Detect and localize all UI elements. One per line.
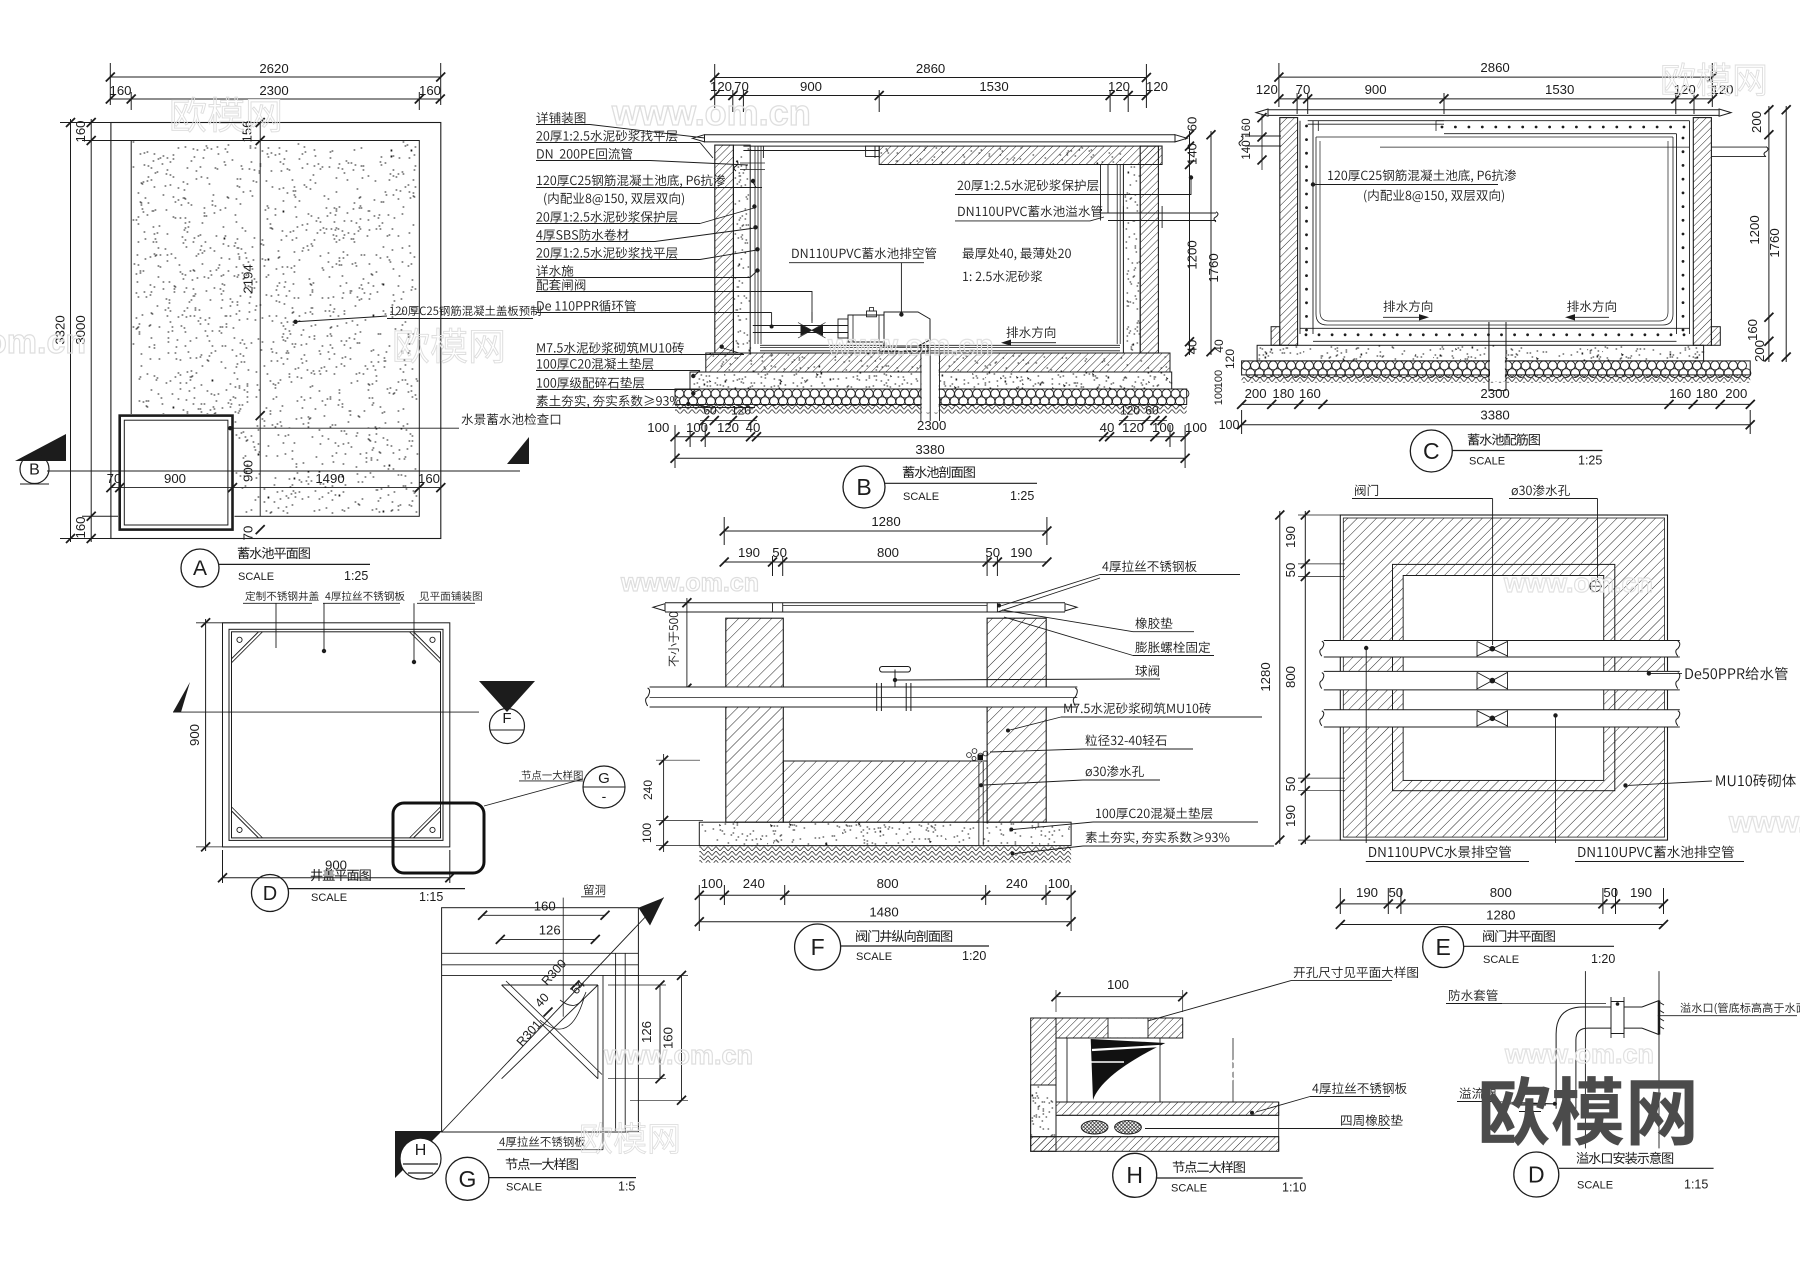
dim row 160/2300/160	[110, 98, 440, 100]
svg-text:www.om.cn: www.om.cn	[603, 1040, 753, 1070]
steel plate label G	[499, 1136, 585, 1147]
centre drain pipe	[1488, 322, 1490, 390]
gravel bed	[1242, 361, 1751, 375]
dim 3380	[675, 457, 1185, 459]
label water supply pipe	[1647, 671, 1651, 675]
dim 2620 top	[110, 76, 440, 78]
inner liner lines with rounded corners	[1316, 136, 1673, 138]
bottom dim row 100/240/800/240/100	[699, 894, 1071, 896]
title D bubble	[252, 875, 289, 912]
svg-text:180: 180	[1696, 386, 1718, 401]
cavity outline	[1066, 1038, 1068, 1102]
svg-text:140: 140	[1241, 140, 1253, 159]
bottom slab hatched	[1056, 1102, 1279, 1115]
title H bubble	[1113, 1153, 1157, 1197]
svg-text:2194: 2194	[241, 264, 256, 293]
svg-text:900: 900	[164, 471, 186, 486]
waterproof sleeve	[1611, 1002, 1624, 1034]
manhole cover plate	[743, 145, 879, 147]
svg-text:160: 160	[1299, 386, 1321, 401]
dim 156 at centre line	[256, 118, 265, 127]
svg-text:SCALE: SCALE	[903, 491, 939, 503]
svg-text:1760: 1760	[1206, 253, 1221, 282]
label waterproof sleeve	[1449, 989, 1498, 1001]
svg-text:200: 200	[1749, 111, 1764, 133]
long diagonal to cut flag	[442, 898, 664, 1132]
bottom interior dim line 70/900/1490/160	[111, 487, 441, 489]
bottom dim rows E	[1340, 903, 1663, 905]
counter diagonal	[502, 985, 598, 1079]
right wall liner lines	[1116, 165, 1118, 345]
left wall hatched	[715, 145, 734, 353]
dim 2860 top	[715, 77, 1147, 79]
concrete pad stippled	[1257, 345, 1704, 361]
svg-text:2300: 2300	[259, 83, 288, 98]
svg-text:1:25: 1:25	[1578, 454, 1602, 468]
svg-text:B: B	[856, 474, 871, 500]
svg-text:om.cn: om.cn	[0, 323, 86, 361]
svg-text:SCALE: SCALE	[1171, 1183, 1207, 1195]
svg-text:120: 120	[1223, 349, 1237, 369]
svg-text:C: C	[1423, 438, 1440, 464]
drain direction labels	[1384, 300, 1433, 312]
centre drain pipe redraw over layers	[1490, 347, 1505, 382]
material labels left of section B	[537, 112, 586, 124]
svg-text:SCALE: SCALE	[506, 1182, 542, 1194]
pool wall verticals	[1584, 971, 1586, 1148]
svg-text:900: 900	[1365, 82, 1387, 97]
svg-text:126: 126	[539, 923, 561, 938]
svg-text:100: 100	[1213, 370, 1225, 388]
pipe 2	[1324, 671, 1680, 690]
svg-text:70: 70	[1296, 82, 1311, 97]
svg-text:1530: 1530	[979, 79, 1008, 94]
cover slab hatched with lip	[879, 146, 1162, 164]
left dim rows E	[1304, 511, 1306, 844]
svg-text:SCALE: SCALE	[238, 571, 274, 583]
svg-text:www.om.cn: www.om.cn	[620, 569, 759, 597]
label reservoir drain	[1553, 713, 1557, 717]
svg-text:160: 160	[1745, 319, 1760, 341]
svg-text:1:15: 1:15	[1684, 1178, 1708, 1192]
cover plate over opening	[1308, 120, 1444, 122]
tank bottom liner	[760, 344, 1120, 346]
svg-text:190: 190	[1356, 885, 1378, 900]
bottom slab hatched	[706, 353, 1170, 372]
svg-text:190: 190	[738, 545, 760, 560]
right break line	[1278, 1102, 1280, 1151]
pool paving stipple texture	[133, 142, 418, 514]
svg-text:50: 50	[985, 545, 1000, 560]
svg-text:1:10: 1:10	[1282, 1181, 1306, 1195]
svg-text:60: 60	[703, 404, 717, 418]
dim 126 top	[500, 938, 595, 940]
svg-text:1:20: 1:20	[962, 949, 986, 963]
svg-text:100: 100	[647, 420, 669, 435]
wall waterproof liner lines	[754, 146, 756, 344]
svg-text:H: H	[415, 1142, 427, 1159]
overflow elbow pipe	[1556, 1007, 1642, 1109]
svg-text:-: -	[602, 788, 607, 804]
dim 100	[1056, 996, 1183, 998]
ground paving line	[705, 134, 1176, 136]
svg-text:1530: 1530	[1545, 82, 1574, 97]
svg-text:1:25: 1:25	[1010, 489, 1034, 503]
svg-text:120: 120	[1146, 79, 1168, 94]
right dim line outer 1760	[1210, 131, 1212, 355]
svg-text:100: 100	[701, 876, 723, 891]
drain pipe through right pier base	[978, 762, 980, 846]
cover inner squares	[229, 629, 443, 840]
dim 3380	[1242, 424, 1751, 426]
section marker H	[395, 1131, 442, 1178]
overflow pipe at right wall	[1100, 165, 1102, 214]
bottom slab rebar band	[1300, 327, 1690, 329]
liner walls with rebar dots	[1299, 121, 1301, 334]
title F bubble	[795, 924, 841, 970]
svg-text:E: E	[1436, 934, 1451, 960]
svg-text:60: 60	[1145, 404, 1159, 418]
right dims 126/160	[659, 985, 661, 1079]
svg-text:190: 190	[1283, 805, 1298, 827]
svg-text:120: 120	[1120, 404, 1140, 418]
dim 900 vertical centre	[256, 525, 265, 534]
leader to detail G bubble	[484, 779, 583, 806]
svg-text:70: 70	[241, 526, 256, 541]
right edge band lines	[602, 975, 604, 1132]
svg-text:2300: 2300	[917, 418, 946, 433]
drain direction arrow	[1007, 326, 1056, 338]
svg-text:200: 200	[1245, 386, 1267, 401]
right dim line outer 1760	[1785, 106, 1787, 362]
title G bubble	[446, 1157, 489, 1200]
svg-text:160: 160	[419, 83, 441, 98]
svg-text:140: 140	[1185, 143, 1200, 165]
bottom small dims 120/60 right	[1119, 420, 1167, 422]
svg-text:240: 240	[743, 876, 765, 891]
section marker F	[479, 681, 535, 712]
left dim line 3320	[70, 119, 72, 542]
corner gusset plates	[232, 632, 259, 659]
right wall hatched	[1140, 146, 1158, 353]
svg-text:100: 100	[1185, 420, 1207, 435]
svg-text:G: G	[458, 1166, 476, 1192]
title B bubble	[843, 466, 885, 508]
paving line	[1268, 109, 1719, 111]
ground hatch band	[1242, 375, 1751, 383]
svg-text:190: 190	[1630, 885, 1652, 900]
svg-text:1280: 1280	[871, 514, 900, 529]
svg-text:50: 50	[1283, 777, 1298, 792]
svg-text:2300: 2300	[1480, 386, 1509, 401]
valve 2	[1477, 672, 1508, 689]
svg-text:1280: 1280	[1258, 662, 1273, 691]
ground hatch band	[675, 405, 1187, 414]
svg-text:www.om.cn: www.om.cn	[1503, 568, 1653, 598]
left wall hatched	[1280, 118, 1298, 346]
fill below cavity hatched	[783, 761, 987, 822]
outer square double border	[1340, 515, 1667, 840]
top slab hatched with opening	[1056, 1018, 1183, 1038]
svg-text:SCALE: SCALE	[1469, 456, 1505, 468]
svg-text:60: 60	[1185, 117, 1200, 132]
site logo watermark dark	[1482, 1076, 1694, 1146]
right footing step	[1711, 327, 1720, 346]
svg-text:160: 160	[534, 899, 556, 914]
pump drain pipe down	[922, 354, 939, 413]
right-side labels of F	[1102, 560, 1196, 572]
dim 160 top	[483, 914, 605, 916]
svg-text:SCALE: SCALE	[311, 892, 347, 904]
rebar slab label	[1328, 169, 1516, 182]
pipe 1	[1324, 641, 1680, 658]
min-500 dim	[686, 598, 688, 692]
svg-text:B: B	[29, 462, 40, 479]
svg-text:A: A	[193, 557, 207, 580]
title D2 bubble	[1514, 1152, 1559, 1197]
svg-text:190: 190	[1283, 526, 1298, 548]
svg-text:120: 120	[1122, 420, 1144, 435]
svg-text:200: 200	[1752, 340, 1767, 362]
svg-text:www.om.cn: www.om.cn	[611, 92, 811, 133]
labels inside section B	[958, 179, 1099, 191]
svg-text:800: 800	[877, 876, 899, 891]
svg-text:100: 100	[1107, 977, 1129, 992]
right dim line inner	[1768, 106, 1770, 362]
svg-text:180: 180	[1272, 386, 1294, 401]
left dim 900	[205, 619, 207, 851]
title A bubble	[181, 549, 219, 587]
pipe stub right	[1711, 146, 1766, 148]
section cut line B-B	[47, 470, 520, 472]
right dim line inner 60/140/1200/40	[1189, 131, 1191, 355]
svg-text:120: 120	[1256, 82, 1278, 97]
hole leader line vertical	[562, 898, 564, 1017]
svg-text:800: 800	[1283, 666, 1298, 688]
svg-text:www.om.cn: www.om.cn	[1504, 1039, 1654, 1069]
svg-text:800: 800	[1490, 885, 1512, 900]
dim 1480	[699, 921, 1071, 923]
svg-text:1760: 1760	[1767, 228, 1782, 257]
svg-text:70: 70	[107, 471, 122, 486]
svg-text:1200: 1200	[1747, 215, 1762, 244]
svg-text:2620: 2620	[259, 61, 288, 76]
corner gusset triangle	[502, 984, 598, 986]
bottom dim 900	[223, 877, 450, 879]
svg-text:3380: 3380	[1480, 408, 1509, 423]
svg-text:F: F	[502, 710, 511, 727]
svg-text:50: 50	[772, 545, 787, 560]
bottom small dims 60/120 left	[700, 420, 757, 422]
water level marks	[1514, 1104, 1546, 1106]
cover outer square	[223, 623, 450, 847]
svg-text:1200: 1200	[1185, 240, 1200, 269]
pump motor	[838, 319, 848, 338]
svg-text:240: 240	[1006, 876, 1028, 891]
svg-text:1490: 1490	[315, 471, 344, 486]
concrete pad stippled	[690, 372, 1172, 389]
right wall hatched	[1693, 118, 1711, 346]
label waterscape drain	[1364, 646, 1368, 650]
svg-text:100: 100	[1048, 876, 1070, 891]
label overflow weir	[1460, 1087, 1497, 1099]
svg-text:40: 40	[746, 420, 761, 435]
svg-text:3380: 3380	[915, 442, 944, 457]
hatched masonry ring	[1343, 518, 1664, 837]
svg-text:2860: 2860	[1480, 60, 1509, 75]
left dim line 160/3000/160	[90, 119, 92, 542]
cavity wall squares	[1393, 564, 1615, 790]
pipe stub left	[1245, 135, 1281, 137]
svg-text:SCALE: SCALE	[1577, 1180, 1613, 1192]
svg-text:240: 240	[641, 780, 655, 800]
svg-text:SCALE: SCALE	[856, 951, 892, 963]
circulation pipe and valve	[753, 325, 848, 327]
ground hatch F	[699, 846, 1071, 863]
svg-text:40: 40	[1185, 340, 1200, 355]
pipe through valve well	[650, 687, 1078, 707]
labels H	[1312, 1082, 1406, 1094]
left pier hatched	[726, 618, 784, 822]
svg-text:200: 200	[1725, 386, 1747, 401]
valve 3	[1477, 711, 1508, 726]
cover plate lines	[783, 605, 987, 607]
svg-text:160: 160	[418, 471, 440, 486]
bottom base hatched	[1031, 1137, 1279, 1152]
svg-text:F: F	[811, 934, 825, 960]
centre split line	[259, 123, 261, 517]
valve 1	[1477, 642, 1508, 657]
section cut line F-F	[173, 711, 479, 713]
svg-text:160: 160	[73, 516, 88, 538]
pipe 3	[1324, 710, 1680, 727]
left small dims 240/100	[663, 754, 665, 852]
svg-text:120: 120	[717, 420, 739, 435]
svg-text:160: 160	[73, 120, 88, 142]
svg-text:100: 100	[640, 823, 654, 843]
right pier hatched	[987, 618, 1046, 822]
section marker B	[15, 434, 66, 461]
label brick masonry	[1623, 783, 1627, 787]
pipe couplings	[876, 683, 878, 711]
pad stippled F	[699, 822, 1071, 845]
dim 2860 top	[1279, 76, 1712, 78]
label leaders into section	[590, 125, 705, 139]
title E bubble	[1423, 927, 1464, 968]
svg-text:D: D	[1528, 1162, 1545, 1188]
svg-text:100: 100	[1152, 420, 1174, 435]
valve T-handle	[880, 667, 911, 673]
percolation hole symbol	[1590, 581, 1601, 592]
inspection hatch square 900x900	[118, 414, 235, 531]
light watermarks	[172, 97, 280, 132]
svg-text:50: 50	[1283, 563, 1298, 578]
svg-text:www.o: www.o	[1728, 806, 1800, 839]
labels above cover	[245, 591, 318, 601]
dim row 190/50/800/50/190	[724, 561, 1047, 563]
svg-text:H: H	[1126, 1162, 1143, 1188]
svg-text:900: 900	[187, 724, 202, 746]
dim 1280 top	[724, 530, 1047, 532]
dim row 120/70/900/1530/120/120	[715, 95, 1147, 97]
svg-text:1480: 1480	[869, 905, 898, 920]
label overflow mouth	[1680, 1003, 1800, 1015]
dim row 120/70/900/1530/120/120	[1279, 98, 1712, 100]
black wedge weir	[1091, 1039, 1166, 1100]
label concrete cover slab	[293, 320, 297, 324]
label valve	[1355, 484, 1378, 496]
svg-text:1280: 1280	[1486, 908, 1515, 923]
label inspection opening	[228, 426, 232, 430]
svg-text:G: G	[598, 770, 610, 787]
percolation hole pebbles	[967, 753, 972, 758]
rubber gasket pads	[1081, 1121, 1108, 1134]
svg-text:100: 100	[1219, 418, 1240, 432]
label percolation hole	[1512, 484, 1570, 496]
left small dims	[1261, 114, 1263, 170]
svg-text:800: 800	[877, 545, 899, 560]
svg-text:1:25: 1:25	[344, 569, 368, 583]
detail callout box G	[393, 803, 484, 873]
top edge band lines	[442, 952, 639, 954]
outer wall rectangle	[111, 123, 441, 539]
svg-text:160: 160	[1241, 118, 1253, 137]
steel plate flag right pier	[997, 575, 1100, 608]
svg-text:D: D	[263, 883, 277, 905]
bottom dim row 200/180/160/2300/160/180/200	[1242, 403, 1751, 405]
title C bubble	[1410, 430, 1452, 472]
svg-text:120: 120	[731, 404, 751, 418]
inner pool rectangle	[131, 141, 419, 517]
cover plate square	[442, 908, 639, 1132]
svg-text:190: 190	[1010, 545, 1032, 560]
svg-text:1:15: 1:15	[419, 890, 443, 904]
svg-text:www.om.cn: www.om.cn	[827, 329, 994, 362]
svg-text:1:20: 1:20	[1591, 952, 1615, 966]
svg-text:2860: 2860	[916, 61, 945, 76]
svg-text:100: 100	[1213, 387, 1225, 405]
label opening size note	[1294, 966, 1418, 978]
pump body	[884, 312, 930, 346]
svg-text:1:5: 1:5	[618, 1180, 635, 1194]
paving line with break ends	[665, 602, 1065, 604]
top slab rebar band right part	[1436, 120, 1690, 122]
svg-text:40: 40	[1100, 420, 1115, 435]
svg-text:120: 120	[1108, 79, 1130, 94]
svg-text:160: 160	[1669, 386, 1691, 401]
flared outlet mouth	[1642, 1001, 1659, 1035]
svg-text:SCALE: SCALE	[1483, 954, 1519, 966]
svg-text:160: 160	[109, 83, 131, 98]
bottom dim row 100/100/120/40/2300/40/120/100/100	[675, 436, 1185, 438]
left footing step	[1271, 327, 1280, 346]
dim 2194 vertical	[256, 411, 265, 420]
left wall hatched	[1031, 1018, 1056, 1151]
gravel bed	[675, 389, 1187, 405]
